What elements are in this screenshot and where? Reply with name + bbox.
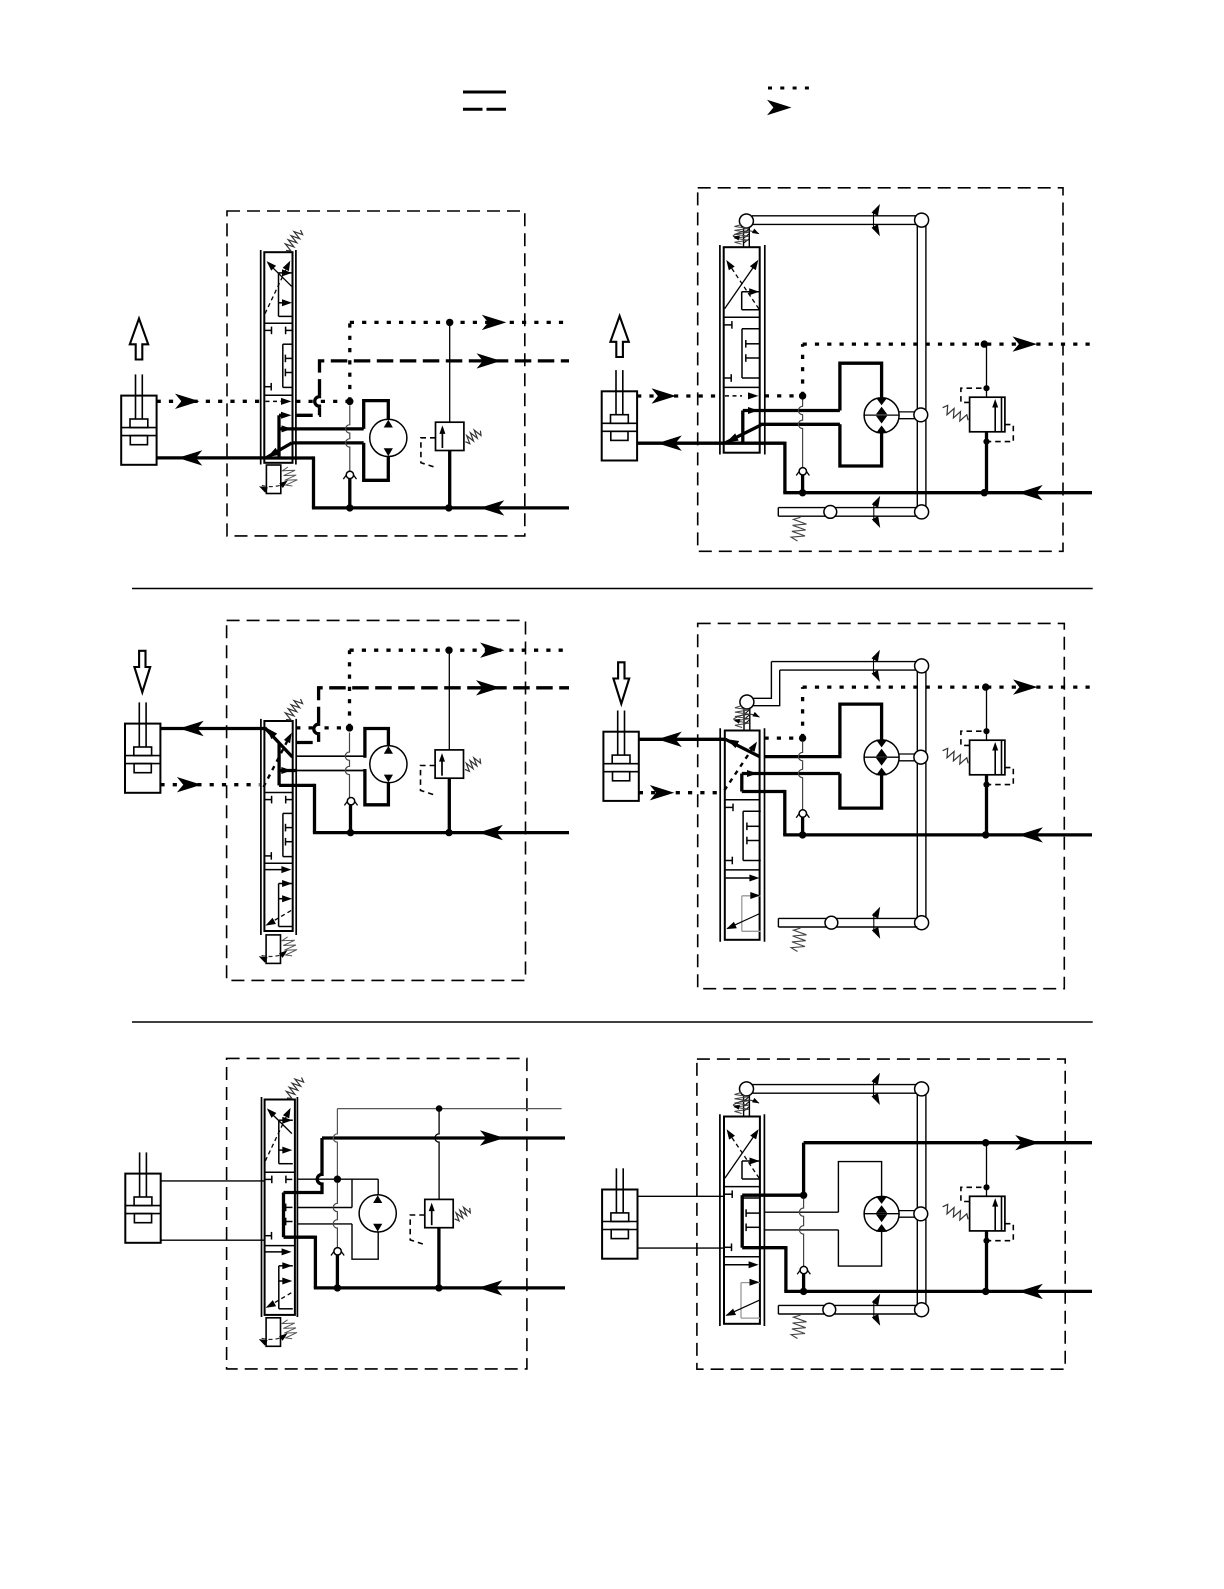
P5 hydraulic unit boundary (dashed box) (227, 1058, 527, 1369)
P3 valve internal gallery vertical (277, 743, 280, 785)
P4 bottom bar spring (791, 928, 806, 951)
P5 motor upper line (297, 1207, 352, 1209)
P6 supply bus (784, 1290, 1092, 1293)
P5 motor lower path (352, 1224, 378, 1259)
P4 bottom bar pivot (825, 916, 838, 929)
P5 motor lower line (297, 1223, 352, 1225)
P5 valve section divider (265, 1171, 295, 1173)
P2 feedback top bar (752, 215, 926, 217)
P1 control valve body (264, 252, 292, 463)
P2 dotted output arrowhead (1013, 336, 1038, 351)
P3 hydraulic unit boundary (dashed box) (227, 620, 526, 980)
P3 dotted output arrowhead (480, 643, 505, 658)
P4 feedback link L (754, 662, 772, 699)
P1 hand pump / master cylinder (121, 396, 156, 465)
P1 pilot dotted line pump to valve (157, 400, 260, 403)
P1 hydraulic unit boundary (dashed box) (227, 211, 525, 536)
P6 valve section 1 crossed arrows (725, 1131, 758, 1178)
P5 supply bus arrowhead (478, 1280, 503, 1295)
P1 supply bus arrowhead (480, 500, 505, 515)
P1 motor upper supply path (364, 401, 389, 429)
P6 bottom bar pivot (823, 1303, 836, 1316)
P3 valve bottom port (279, 784, 314, 787)
P4 valve section 3 crossed arrows (726, 877, 752, 879)
legend solid line (463, 91, 506, 94)
P1 valve spring top (285, 230, 302, 251)
P2 dotted segment valve to junction (765, 394, 803, 397)
P4 junction node pilot (799, 734, 806, 741)
P6 top bar movement arrows (873, 1079, 875, 1098)
P3 check valve riser (345, 733, 349, 798)
P5 relief valve (425, 1199, 453, 1227)
P5 check valve (331, 1247, 337, 1255)
P3 motor lower return path (365, 769, 389, 805)
P2 check valve (796, 467, 802, 475)
P3 valve spring top (285, 699, 302, 720)
P1 supply bus (312, 506, 569, 509)
P3 control valve body (264, 721, 292, 931)
P6 relief to bus (985, 1231, 988, 1292)
P4 valve section divider (725, 799, 760, 801)
P2 motor upper supply path (840, 363, 882, 410)
P4 valve to bus corner (783, 790, 786, 835)
P5 valve bottom exit (284, 1236, 316, 1239)
P2 junction node pilot (799, 392, 806, 399)
P3 supply bus arrowhead (478, 825, 503, 840)
P1 dotted segment valve to junction (296, 400, 350, 403)
P1 valve bottom gallery (264, 456, 313, 459)
P6 motor lower path (838, 1230, 881, 1266)
P5 supply bus (314, 1286, 565, 1289)
P3 valve diagonal flow path (265, 728, 293, 757)
P4 top right pivot (915, 659, 929, 673)
P3 valve section divider 2 (264, 862, 292, 864)
P4 relief valve (970, 740, 1005, 775)
P6 power output line (804, 1141, 1092, 1144)
P6 supply bus arrowhead (1018, 1284, 1043, 1299)
P1 valve section 1 crossed arrows (268, 263, 292, 287)
P2 dotted riser (801, 344, 804, 396)
P2 bottom pivot (915, 505, 929, 519)
P6 valve top exit (742, 1194, 803, 1197)
P1 motor lower return path (364, 443, 389, 480)
P6 bottom bar movement arrows (873, 1300, 875, 1319)
P2 valve motor-low port (760, 423, 840, 426)
P5 power output line (322, 1136, 565, 1139)
P3 valve motor-low port w/ arrow (279, 769, 296, 772)
legend dashed line (463, 108, 506, 111)
P2 valve to bus corner (783, 442, 786, 493)
P6 top right pivot (915, 1082, 929, 1096)
P5 valve section 3 crossed arrows (265, 1251, 285, 1253)
P2 pilot dotted line pump to valve (637, 394, 718, 397)
P4 dotted port to junction (765, 736, 803, 739)
P6 exit riser (802, 1143, 805, 1196)
P4 valve bottom port (742, 790, 785, 793)
P3 dashed work line w/ hop over dotted (296, 735, 318, 743)
P4 hand pump / master cylinder (603, 732, 638, 801)
P6 feedback bottom bar (778, 1304, 917, 1306)
legend arrowhead (767, 100, 792, 115)
P4 valve diagonal flow path (725, 739, 759, 756)
P3 valve section 2 closed ports (265, 799, 272, 801)
P1 dotted riser (348, 322, 351, 401)
P3 dotted riser (348, 650, 351, 728)
P5 hydraulic motor (359, 1195, 396, 1232)
P3 relief valve (435, 750, 463, 778)
P2 roller and stem (739, 214, 753, 228)
P4 dotted riser (801, 687, 804, 738)
P4 feedback right bar (916, 666, 918, 923)
P2 bottom bar spring (791, 517, 806, 541)
P3 dotted port to junction (296, 726, 312, 729)
P2 feedback right bar (916, 220, 918, 512)
P2 valve section 1 crossed arrows (725, 262, 758, 309)
P1 junction node pilot line (346, 398, 353, 405)
P6 motor upper line (764, 1211, 838, 1213)
P2 check valve riser (798, 400, 802, 468)
P2 valve diagonal flow path (725, 425, 761, 443)
P2 raise arrow (hollow up arrow) (610, 316, 628, 357)
P1 valve section divider (264, 322, 292, 324)
P6 feedback right bar (916, 1089, 918, 1310)
P2 hydraulic unit boundary (dashed box) (698, 188, 1063, 552)
P1 valve side rails (260, 250, 262, 465)
P4 lower arrow (hollow down arrow) (613, 662, 629, 704)
P5 valve side rails (261, 1097, 263, 1317)
P3 valve section 3 crossed arrows (265, 869, 285, 871)
P4 hydraulic motor (864, 740, 899, 775)
P1 return line valve to pump (157, 456, 265, 459)
P4 valve staple gallery (740, 774, 743, 792)
P3 hand pump / master cylinder (125, 724, 160, 793)
P3 lower arrow (hollow down arrow) (134, 651, 150, 693)
P1 junction node dotted/relief (446, 319, 453, 326)
P1 relief to bus (448, 451, 451, 508)
P3 check valve (344, 797, 350, 805)
P4 check valve riser (798, 742, 802, 810)
P4 motor link (899, 753, 915, 755)
P5 valve spring top (286, 1078, 303, 1099)
P4 feedback bottom bar (778, 917, 917, 919)
P5 valve section 2 closed ports (265, 1178, 272, 1180)
P2 valve side rails (719, 245, 721, 455)
P4 hydraulic unit boundary (dashed box) (698, 623, 1065, 988)
P5 valve section divider 2 (265, 1245, 295, 1247)
P2 valve section divider 2 (724, 386, 760, 388)
P5 valve through-gallery vertical (282, 1193, 285, 1238)
P2 pilot dotted inside valve w/ arrow (725, 395, 742, 397)
P6 valve bottom exit (742, 1246, 786, 1249)
P1 relief valve (436, 422, 464, 450)
P5 relief pilot riser (435, 1109, 439, 1200)
P5 pump line lower (161, 1239, 265, 1241)
P6 check valve (797, 1266, 803, 1274)
P2 hydraulic motor (864, 398, 899, 433)
P6 hydraulic motor (864, 1196, 899, 1231)
P4 bottom pivot (915, 916, 929, 930)
P6 valve through-gallery vertical (741, 1195, 744, 1248)
P2 hand pump / master cylinder (602, 391, 637, 460)
P2 control valve body (724, 247, 760, 453)
P4 relief to bus (985, 775, 988, 835)
P6 check valve to bus (802, 1274, 805, 1292)
P5 pilot junction node (436, 1105, 443, 1112)
P1 valve diagonal flow path (266, 443, 292, 458)
P3 relief to bus (448, 778, 451, 832)
P6 motor upper path (838, 1162, 881, 1213)
P1 check valve (343, 471, 349, 479)
P3 valve side rails (260, 719, 262, 935)
P2 bottom bar movement arrows (873, 502, 875, 521)
P6 motor lower line (764, 1229, 838, 1231)
P1 dotted output arrowhead (482, 315, 507, 330)
P3 motor upper line (inactive thin) (296, 755, 365, 757)
P6 feedback top bar (753, 1084, 926, 1086)
P5 top port line (297, 1178, 378, 1180)
P1 dashed output arrowhead (477, 353, 502, 368)
P1 valve section 2 closed ports (265, 329, 272, 331)
P3 relief pilot riser (448, 650, 450, 750)
P5 loop jog vertical (351, 1179, 353, 1207)
P5 valve top exit (284, 1191, 323, 1194)
P2 motor pivot circle (914, 408, 928, 422)
P4 dotted output line (803, 685, 1092, 688)
P2 check valve to bus (801, 475, 804, 493)
P3 valve section divider (264, 792, 292, 794)
P4 feedback top bar (771, 661, 926, 663)
P3 pilot dotted line pump to valve (160, 783, 259, 786)
P1 check valve riser (346, 405, 350, 471)
P4 roller and stem (740, 695, 754, 709)
P6 valve side rails (719, 1114, 721, 1326)
P3 motor upper supply path (365, 729, 389, 758)
P4 check valve (796, 810, 802, 818)
P6 valve section 3 crossed arrows (725, 1264, 751, 1266)
P6 valve section 2 closed ports (725, 1193, 733, 1195)
P2 feedback bottom bar (778, 507, 917, 509)
P2 motor link (899, 411, 915, 413)
P3 valve pilot dashed diagonal (264, 737, 290, 787)
P2 dotted output line (803, 342, 1092, 345)
P1 valve motor-up port w/ arrow (279, 427, 364, 430)
P5 check valve riser (333, 1183, 337, 1248)
P4 valve side rails (719, 728, 721, 942)
P6 relief pilot riser (986, 1143, 988, 1197)
P1 relief pilot riser (449, 322, 451, 422)
P4 supply bus arrowhead (1018, 827, 1043, 842)
P4 supply bus (783, 833, 1092, 836)
P6 hydraulic unit boundary (dashed box) (697, 1059, 1065, 1369)
P2 valve section divider (724, 316, 760, 318)
P5 motor top entry (377, 1179, 379, 1195)
P4 motor upper supply path (765, 704, 882, 757)
P3 check valve to bus (349, 805, 352, 833)
P5 valve section 1 crossed arrows (268, 1110, 292, 1134)
P4 bottom bar movement arrows (873, 913, 875, 932)
P3 hydraulic motor (370, 746, 407, 783)
P2 valve motor-up port w/ arrow (staple) (743, 409, 840, 412)
P6 exit junction node (800, 1192, 807, 1199)
P3 return line valve to pump (160, 727, 264, 730)
P5 inactive pilot top line (337, 1108, 561, 1110)
P1 lever actuator box (266, 465, 280, 494)
P1 raise arrow (hollow up arrow) (130, 319, 148, 360)
P4 motor lower return path (840, 774, 882, 809)
P3 junction node pilot (346, 724, 353, 731)
P4 return line valve to pump (639, 738, 725, 741)
P6 power output arrowhead (1015, 1135, 1039, 1150)
P6 hand pump / master cylinder (602, 1190, 637, 1259)
P6 bottom bar spring (791, 1315, 806, 1338)
P4 dotted output arrowhead (1013, 679, 1038, 694)
P4 valve pilot dashed diagonal (724, 745, 755, 791)
P5 control valve body (265, 1100, 295, 1315)
P3 supply bus (313, 831, 569, 834)
P6 valve to bus corner (784, 1246, 787, 1291)
P2 return line valve to pump (637, 442, 724, 445)
P1 dashed work line (long-dash output) (296, 407, 319, 415)
P3 valve to bus corner (313, 784, 316, 833)
P1 valve to bus corner (312, 456, 315, 508)
P5 hand pump / master cylinder (125, 1174, 160, 1243)
P5 lever actuator box (266, 1318, 280, 1347)
P4 check valve to bus (801, 817, 804, 835)
P2 top bar movement arrows (873, 211, 875, 230)
P1 valve section divider 2 (264, 394, 292, 396)
row divider 1 (132, 588, 1093, 590)
P6 valve section divider (724, 1186, 760, 1188)
P2 relief valve (970, 397, 1005, 432)
P2 supply bus arrowhead (1018, 485, 1042, 500)
P5 exit riser w/ hop (317, 1138, 322, 1194)
P5 bottom exit riser (314, 1236, 317, 1288)
P1 pilot dotted inside valve w/ arrow (266, 400, 284, 402)
P4 control valve body (725, 731, 760, 940)
P1 hydraulic motor (370, 419, 407, 456)
P4 relief pilot riser (986, 687, 988, 740)
P6 relief valve (970, 1196, 1005, 1231)
P6 motor pivot circle (914, 1207, 928, 1221)
P1 dotted output line (350, 321, 566, 324)
P5 inactive pilot line riser (333, 1109, 337, 1176)
P4 top bar movement arrows (873, 656, 875, 675)
P6 bottom pivot (915, 1303, 929, 1317)
P2 bottom bar pivot (824, 506, 837, 519)
P6 motor link (899, 1210, 915, 1212)
P6 valve section divider 2 (724, 1256, 760, 1258)
P2 motor lower return path (840, 424, 882, 466)
P1 valve motor-low port (292, 441, 364, 444)
P1 valve internal gallery vertical (277, 415, 280, 458)
P2 relief pilot riser (986, 344, 988, 397)
P1 check valve to bus (348, 479, 351, 508)
P3 lever actuator box (266, 935, 280, 964)
P2 valve bottom gallery (724, 442, 785, 445)
P1 valve dashed work port w/ arrow (279, 414, 284, 417)
P4 valve section 2 closed ports (725, 806, 733, 808)
P6 control valve body (724, 1117, 760, 1324)
P2 valve section 2 closed ports (724, 324, 732, 326)
legend dotted line (768, 87, 813, 90)
P2 top right pivot (915, 213, 929, 227)
P5 pump line upper (161, 1180, 265, 1182)
P5 power output arrowhead (480, 1130, 505, 1145)
P4 valve section divider 2 (725, 869, 760, 871)
P2 supply bus (783, 491, 1092, 494)
P3 dashed output arrowhead (476, 680, 501, 695)
P6 check valve riser (799, 1199, 803, 1266)
P6 pump line upper (638, 1195, 725, 1197)
P2 relief to bus (985, 432, 988, 493)
P4 valve motor-low port w/ arrow (742, 772, 840, 775)
P5 check valve to bus (336, 1255, 339, 1288)
P4 motor pivot circle (914, 750, 928, 764)
P6 pump line lower (638, 1247, 725, 1249)
P5 relief to bus (437, 1228, 440, 1288)
P3 dotted output line (350, 649, 566, 652)
row divider 2 (132, 1021, 1093, 1023)
P6 roller and stem (740, 1082, 754, 1096)
P3 motor lower line (296, 770, 365, 772)
P4 pilot dotted line pump to valve (639, 791, 719, 794)
P5 port junction node (334, 1176, 341, 1183)
